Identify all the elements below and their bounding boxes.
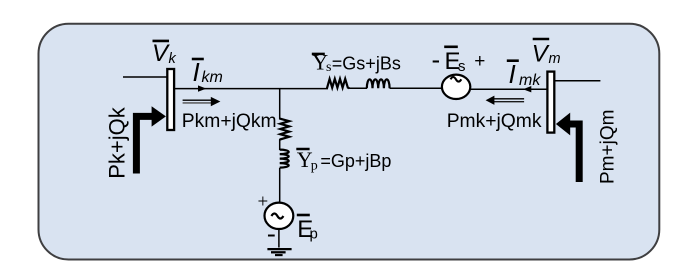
svg-text:Pk+jQk: Pk+jQk: [105, 106, 130, 179]
svg-text:I: I: [509, 59, 516, 89]
wire: source E_p to ground: [278, 230, 280, 248]
source E_s (series AC source): [442, 75, 470, 99]
svg-text:+: +: [258, 192, 269, 213]
svg-text:Pmk+jQmk: Pmk+jQmk: [447, 111, 542, 132]
wire: right feeder stub from bus m: [555, 80, 601, 82]
svg-text:=Gs+jBs: =Gs+jBs: [332, 54, 401, 74]
wire: Bs to source E_s: [390, 87, 443, 89]
current arrowhead I_km on wire: [198, 85, 206, 91]
wire: left feeder stub into bus k: [123, 76, 167, 78]
wire: junction to series Gs: [280, 88, 328, 90]
power flow double arrow (k to m): [183, 97, 221, 106]
node A: shunt tap junction, wire down to Gp: [279, 88, 281, 120]
svg-text:m: m: [549, 51, 561, 67]
svg-text:s: s: [458, 58, 466, 75]
inductor Bs (series arches): [367, 79, 390, 88]
svg-text:mk: mk: [519, 72, 541, 89]
ground: [267, 249, 291, 255]
svg-text:=Gp+jBp: =Gp+jBp: [320, 151, 391, 171]
thick injection arrow at bus m: [556, 113, 579, 182]
label - E_s +: [432, 45, 486, 76]
svg-text:+: +: [474, 51, 485, 72]
svg-text:p: p: [311, 158, 318, 173]
resistor Gp (shunt zigzag): [280, 119, 290, 140]
label V_m: [532, 39, 561, 68]
label E_p: [297, 215, 318, 243]
svg-text:s: s: [326, 60, 331, 75]
label V_k: [152, 40, 177, 67]
label I_km: [192, 57, 223, 87]
bus k bar: [167, 69, 174, 130]
inductor Bp (shunt arches): [280, 150, 289, 168]
wire: Gs to Bs: [349, 87, 367, 89]
svg-text:km: km: [202, 69, 223, 86]
svg-text:p: p: [310, 226, 318, 243]
svg-text:-: -: [267, 219, 276, 248]
label Y_p=Gp+jBp: [296, 147, 391, 173]
svg-text:-: -: [432, 45, 441, 75]
svg-text:V: V: [532, 41, 550, 68]
power flow double arrow (m to k, pointing left): [486, 96, 524, 105]
current arrowhead I_mk on wire (pointing left): [523, 86, 531, 92]
thick injection arrow at bus k: [136, 106, 166, 173]
resistor Gs (series zigzag): [327, 79, 349, 88]
wire: Bp to source E_p: [279, 168, 281, 204]
svg-text:V: V: [152, 40, 170, 67]
bus m bar: [547, 72, 554, 133]
svg-text:I: I: [193, 57, 200, 87]
svg-text:Pkm+jQkm: Pkm+jQkm: [182, 111, 277, 132]
label I_mk: [507, 59, 542, 89]
label Y_s=Gs+jBs: [312, 50, 401, 76]
svg-text:k: k: [169, 51, 177, 67]
wire: bus k to shunt junction: [175, 88, 281, 90]
enclosure rounded box: [39, 24, 660, 260]
source E_p (shunt AC source): [265, 203, 294, 229]
wire: Gp to Bp: [279, 140, 281, 151]
wire: source E_s to bus m: [470, 88, 548, 90]
svg-text:Pm+jQm: Pm+jQm: [598, 110, 619, 184]
